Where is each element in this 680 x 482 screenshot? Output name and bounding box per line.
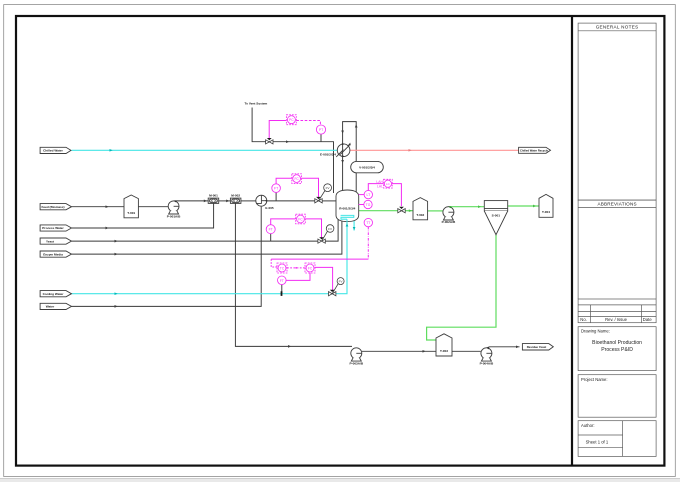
wire process water line	[72, 203, 214, 228]
pump P-001A/B	[168, 200, 179, 214]
op-amp FIC1 controller square	[292, 174, 302, 184]
wire signal PC to vent valve	[269, 121, 286, 139]
wire tank T-001 to pump P-001	[138, 206, 168, 208]
wire exchanger E-005 to feed valve	[266, 200, 315, 202]
node arrow cooling cyan	[115, 292, 118, 295]
node flag chilled water recycle	[519, 147, 551, 153]
svg-text:V-001/2/3/4: V-001/2/3/4	[359, 166, 375, 170]
svg-text:Date: Date	[643, 317, 653, 322]
valve green LV	[398, 207, 405, 213]
svg-text:TT: TT	[366, 221, 370, 225]
node PT stem	[320, 134, 322, 142]
svg-text:LAL: LAL	[377, 184, 383, 188]
svg-text:Process Water: Process Water	[42, 226, 64, 230]
tank T-001	[124, 195, 138, 218]
node flag feed biomass	[40, 204, 71, 210]
node arrow downcomer into reactor	[341, 160, 344, 163]
node arrow water	[115, 305, 118, 308]
wire signal FIC2 to cooling valve	[315, 267, 333, 290]
instrument FV2 tag	[337, 278, 344, 285]
instrument LT	[364, 190, 372, 198]
svg-text:Chilled Water: Chilled Water	[43, 149, 63, 153]
wire cooling water cyan to coil	[72, 221, 348, 294]
wire tank T-002 to pump P-002	[428, 210, 443, 212]
wire yeast line	[72, 240, 319, 242]
svg-text:FV: FV	[326, 186, 330, 190]
node arrow into T-003	[423, 350, 426, 353]
svg-text:Rev. / Issue: Rev. / Issue	[605, 317, 627, 322]
node arrow coil outlet down cyan	[353, 227, 356, 230]
svg-text:Author:: Author:	[581, 423, 595, 428]
svg-text:Project Name:: Project Name:	[581, 377, 608, 382]
op-amp FIC2 controller square	[305, 263, 315, 273]
wire coil outlet stub cyan	[353, 221, 355, 231]
node arrow enzym	[115, 253, 118, 256]
node arrow bottoms line	[288, 345, 291, 348]
node signal dot	[295, 267, 297, 269]
bottom window strip	[0, 479, 680, 482]
node FT cooling stem	[281, 285, 283, 294]
wire yeast valve to reactor bottom	[325, 220, 338, 242]
node arrow coil inlet up cyan	[346, 223, 349, 226]
svg-text:TC: TC	[280, 267, 285, 271]
tank T-002	[413, 198, 428, 220]
wire separator S-001 overflow to tank T-004	[508, 205, 539, 207]
pump P-003A/B	[351, 348, 362, 361]
svg-text:E-001/2/3/4: E-001/2/3/4	[320, 152, 336, 156]
svg-text:M-002: M-002	[231, 193, 240, 197]
op-amp TIC controller square	[277, 263, 287, 273]
node flag chilled water	[40, 147, 71, 153]
node TG nozzle	[359, 204, 364, 206]
revision table	[578, 299, 656, 323]
wire signal TT dashdot down	[367, 227, 369, 259]
wire pump P-004 discharge to residue flag	[486, 347, 519, 348]
reactor cooling coil cyan	[341, 215, 354, 222]
svg-text:FT: FT	[269, 228, 273, 232]
general notes box	[578, 23, 656, 200]
svg-text:Water: Water	[46, 305, 55, 309]
wire column riser	[343, 122, 357, 193]
instrument FV3 tag	[326, 225, 334, 233]
node arrow chilled cyan	[110, 149, 113, 152]
wire vent header	[252, 108, 333, 194]
svg-text:P-003A/B: P-003A/B	[350, 361, 364, 365]
svg-text:T-003: T-003	[440, 349, 448, 353]
wire signal PC to PT dashed	[296, 121, 320, 125]
svg-text:S-001: S-001	[492, 213, 501, 217]
node arrow yeast	[115, 240, 118, 243]
wire feed biomass line	[72, 206, 125, 208]
drum V-001/2/3/4 stadium	[351, 161, 384, 172]
instrument FT yeast	[266, 225, 275, 234]
wire fermenter outlet green	[359, 210, 398, 212]
svg-text:E-005: E-005	[265, 206, 274, 210]
node arrow green into S-001	[478, 205, 481, 208]
svg-text:FT: FT	[280, 279, 284, 283]
svg-text:M-001: M-001	[209, 193, 218, 197]
node flag residue yeast	[522, 344, 553, 350]
instrument TT	[364, 218, 372, 226]
wire pump P-002 discharge to separator S-001	[448, 206, 484, 208]
pump P-002A/B	[443, 206, 454, 220]
wire tank T-003 to pump P-004	[452, 350, 481, 352]
pump P-004A/B	[481, 347, 492, 361]
wire signal FT yeast to FIC3	[271, 219, 296, 225]
wire signal TIC to FIC2 dashed	[287, 267, 305, 269]
wire signal FT2 to FIC2	[286, 273, 310, 280]
svg-text:FV: FV	[328, 227, 332, 231]
node arrow vent	[286, 140, 289, 143]
instrument FV1 tag	[324, 184, 332, 192]
tank T-003	[436, 334, 452, 356]
node arrow riser up	[355, 124, 358, 127]
svg-text:FT: FT	[274, 187, 278, 191]
node flag cooling water	[40, 291, 71, 297]
node arrow before M-001	[204, 200, 207, 203]
instrument FT1	[272, 184, 281, 193]
svg-text:T-004: T-004	[542, 210, 550, 214]
svg-text:Cooling Water: Cooling Water	[43, 292, 65, 296]
instrument FT cooling	[278, 276, 287, 285]
svg-text:Yeast: Yeast	[46, 239, 54, 243]
svg-text:Chilled Water Recycle: Chilled Water Recycle	[520, 148, 548, 152]
wire signal FIC3 to yeast valve	[305, 219, 322, 238]
node LT nozzle	[359, 194, 364, 196]
wire separator S-001 underflow to tank T-003	[427, 235, 496, 340]
svg-text:GENERAL NOTES: GENERAL NOTES	[596, 25, 639, 30]
mixer M-001	[208, 198, 219, 203]
node arrow red return	[409, 149, 412, 152]
svg-text:Enzym Media: Enzym Media	[43, 252, 63, 256]
svg-text:To Vent System: To Vent System	[245, 101, 268, 105]
node arrow before M-002	[226, 200, 229, 203]
author box	[578, 421, 656, 457]
node arrow green into T-002	[409, 209, 412, 212]
wire signal FT1 to FIC1	[276, 178, 292, 184]
node flag process water	[40, 225, 71, 231]
wire pump P-001 discharge to mixer M-001	[174, 200, 209, 202]
svg-text:P-004A/B: P-004A/B	[480, 361, 494, 365]
svg-text:LT: LT	[366, 193, 370, 197]
svg-text:Process P&ID: Process P&ID	[601, 347, 633, 353]
wire mixer M-001 to mixer M-002	[219, 200, 231, 202]
valve feed FV1	[315, 191, 325, 203]
svg-text:Bioethanol Production: Bioethanol Production	[592, 340, 642, 346]
node flag enzym media	[40, 251, 71, 257]
svg-text:PT: PT	[319, 128, 323, 132]
wire signal FIC1 to feed valve	[301, 178, 318, 198]
node arrow downcomer down	[341, 131, 344, 134]
svg-text:Sheet 1 of 1: Sheet 1 of 1	[586, 440, 609, 445]
wire feed valve to reactor R-001	[322, 200, 337, 202]
svg-text:P-001A/B: P-001A/B	[167, 215, 181, 219]
title block divider	[571, 16, 573, 466]
node arrow feed	[106, 205, 109, 208]
wire signal drop to TIC dashed	[271, 259, 277, 267]
svg-text:FC: FC	[294, 177, 299, 181]
wire signal LT to LIC	[368, 184, 383, 191]
node arrow into residue flag	[516, 345, 519, 348]
wire green valve to tank T-002	[404, 210, 413, 212]
wire enzym media line	[72, 221, 342, 255]
svg-text:T-002: T-002	[416, 213, 424, 217]
svg-text:ABBREVIATIONS: ABBREVIATIONS	[597, 202, 636, 207]
separator S-001	[484, 201, 507, 235]
node FT yeast stem	[270, 234, 272, 241]
node orifice cooling FT	[281, 291, 283, 296]
svg-text:Feed (Biomass): Feed (Biomass)	[41, 205, 64, 209]
node arrow process water	[106, 227, 109, 230]
op-amp LIC controller square	[384, 179, 393, 188]
svg-text:FV: FV	[339, 280, 343, 284]
svg-text:FC: FC	[298, 218, 303, 222]
project name box	[578, 375, 656, 418]
svg-text:TG: TG	[366, 203, 371, 207]
wire mixer M-002 down to pump P-003	[235, 203, 352, 346]
op-amp PC controller square	[286, 115, 296, 125]
abbreviations box	[578, 200, 656, 299]
exchanger E-005	[256, 195, 268, 206]
wire signal LIC to green valve	[392, 184, 402, 207]
op-amp FIC3 controller square	[296, 214, 306, 224]
wire pump P-003 discharge to tank T-003	[362, 350, 436, 352]
valve vent PV	[266, 138, 273, 144]
svg-text:No.: No.	[580, 317, 587, 322]
instrument TG	[364, 200, 372, 208]
mixer M-002	[230, 198, 241, 203]
svg-text:FC: FC	[308, 267, 313, 271]
instrument PT	[316, 125, 325, 134]
valve cooling FV2	[329, 284, 339, 296]
svg-text:Residue Yeast: Residue Yeast	[527, 345, 547, 349]
svg-text:R-001/2/3/4: R-001/2/3/4	[339, 206, 355, 210]
wire water line to exchanger E-005	[72, 207, 262, 307]
node FT1 stem	[275, 192, 277, 201]
wire signal TT horizontal	[271, 258, 368, 260]
reactor R-001/2/3/4	[336, 190, 359, 222]
node flag yeast	[40, 238, 71, 244]
node flag water	[40, 303, 71, 309]
wire chilled water return red	[348, 149, 518, 151]
wire chilled water supply cyan	[72, 149, 338, 151]
valve yeast FV3	[318, 231, 328, 243]
svg-text:T-001: T-001	[127, 211, 135, 215]
drawing name box	[578, 327, 656, 371]
wire mixer M-002 to exchanger E-005	[241, 200, 256, 202]
svg-text:LAH: LAH	[376, 180, 383, 184]
svg-text:P-002A/B: P-002A/B	[442, 220, 456, 224]
node arrow green into T-004	[533, 205, 536, 208]
svg-text:PC: PC	[289, 118, 294, 122]
svg-text:Drawing Name:: Drawing Name:	[581, 328, 610, 333]
tank T-004	[539, 194, 553, 217]
exchanger E-001/2/3/4	[336, 143, 351, 158]
